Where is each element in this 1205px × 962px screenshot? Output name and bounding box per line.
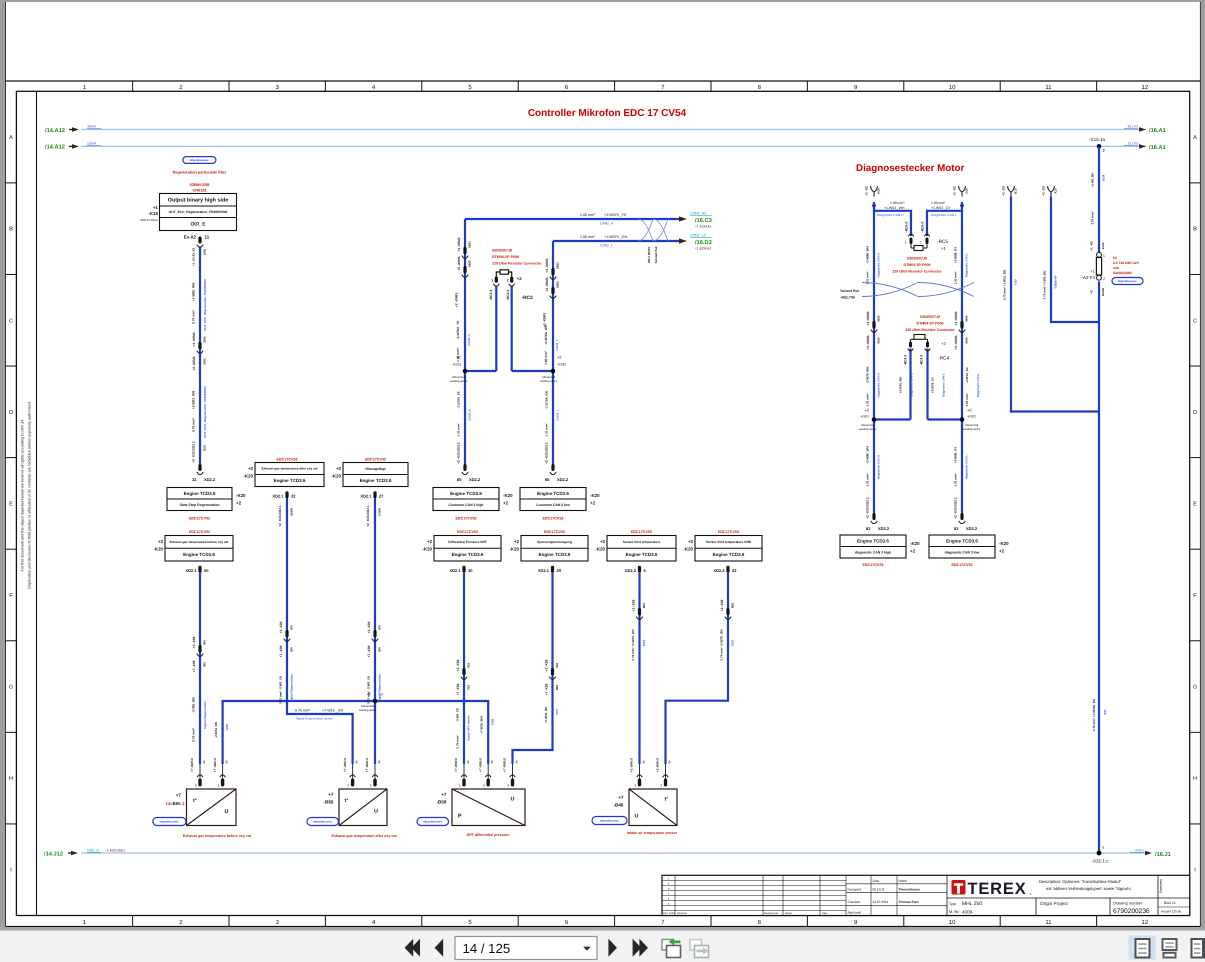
svg-text:1.00 mm²: 1.00 mm² xyxy=(457,423,461,436)
svg-text:2002: 2002 xyxy=(202,358,206,365)
svg-text:-K20: -K20 xyxy=(503,493,513,498)
svg-text:ntlpcolbw.anex.: ntlpcolbw.anex. xyxy=(190,159,210,162)
svg-text:XD2.2: XD2.2 xyxy=(204,477,216,482)
svg-text:+1-ECM:K1: +1-ECM:K1 xyxy=(695,225,712,229)
svg-text:-K18: -K18 xyxy=(148,211,158,216)
svg-text:7B3: 7B3 xyxy=(466,662,470,668)
svg-text:11: 11 xyxy=(205,235,210,240)
svg-text:-A2-F3: -A2-F3 xyxy=(1082,275,1096,280)
svg-text:EDC17CV52: EDC17CV52 xyxy=(631,530,652,534)
svg-text:/16.C3: /16.C3 xyxy=(695,217,712,224)
svg-text:Diagnostic CAN L: Diagnostic CAN L xyxy=(965,253,969,278)
svg-text:XD2.1: XD2.1 xyxy=(185,568,197,573)
svg-text:0.75 mm²: 0.75 mm² xyxy=(192,418,196,432)
svg-text:6B02: 6B02 xyxy=(467,260,471,267)
svg-text:Sensor Inlet temperature GND: Sensor Inlet temperature GND xyxy=(706,540,752,544)
svg-text:+7 -B66:X: +7 -B66:X xyxy=(365,757,369,772)
svg-text:5350H-2/58: 5350H-2/58 xyxy=(190,183,210,187)
svg-text:welding splice: welding splice xyxy=(450,379,468,383)
svg-text:Diagnostic CAN H: Diagnostic CAN H xyxy=(877,213,904,217)
svg-text:EDC17CV52: EDC17CV52 xyxy=(542,516,563,520)
svg-text:-KS01: -KS01 xyxy=(860,415,869,419)
svg-text:+2 -X0M1: +2 -X0M1 xyxy=(192,356,196,371)
svg-text:Regeneration particulate filte: Regeneration particulate filter xyxy=(173,171,227,175)
svg-text:H10: H10 xyxy=(877,188,881,194)
svg-text:85: 85 xyxy=(457,477,462,482)
svg-text:-B46: -B46 xyxy=(614,803,624,808)
svg-text:30U/4: 30U/4 xyxy=(87,125,96,129)
svg-text:Signal Regeneration: Signal Regeneration xyxy=(289,674,293,702)
svg-text:ntlpcolbw.anex.: ntlpcolbw.anex. xyxy=(160,821,180,824)
svg-text:9040: 9040 xyxy=(964,315,968,322)
svg-text:05.10.11: 05.10.11 xyxy=(873,887,885,891)
svg-text:XD2.2: XD2.2 xyxy=(625,568,637,573)
svg-text:Date: Date xyxy=(822,912,828,915)
svg-text:+2: +2 xyxy=(427,539,433,544)
svg-text:4000-: 4000- xyxy=(962,909,974,914)
svg-text:5V0: 5V0 xyxy=(555,709,559,715)
svg-text:G10: G10 xyxy=(965,188,969,194)
svg-text:+2: +2 xyxy=(941,341,946,346)
svg-text:ntlpcolbw.anex.: ntlpcolbw.anex. xyxy=(600,820,620,823)
svg-text:53035557J8: 53035557J8 xyxy=(492,249,512,253)
svg-text:2040: 2040 xyxy=(202,336,206,343)
svg-text:E: E xyxy=(1193,501,1197,507)
svg-text:ntlpcolbw.anex.: ntlpcolbw.anex. xyxy=(423,821,443,824)
svg-text:1.00 mm²: 1.00 mm² xyxy=(580,235,596,239)
svg-text:/14.J12: /14.J12 xyxy=(44,851,63,858)
svg-text:-RC3: -RC3 xyxy=(522,295,534,301)
svg-text:53000504B3: 53000504B3 xyxy=(1113,271,1132,275)
svg-text:ntlpcolbw.anex.: ntlpcolbw.anex. xyxy=(1118,280,1138,283)
svg-text:Drawing number: Drawing number xyxy=(1113,900,1143,905)
svg-text:53035557J9: 53035557J9 xyxy=(907,257,927,261)
svg-text:1: 1 xyxy=(491,279,493,283)
svg-text:1: 1 xyxy=(634,784,636,788)
svg-text:+7 -B58:X: +7 -B58:X xyxy=(454,757,458,772)
svg-text:OUT_ECU_Regeneration_FR30E006N: OUT_ECU_Regeneration_FR30E006N xyxy=(203,386,207,437)
svg-text:-2-W78A_YE: -2-W78A_YE xyxy=(456,321,460,340)
svg-text:+1-W079 _GN: +1-W079 _GN xyxy=(604,235,627,239)
svg-text:H: H xyxy=(1193,776,1197,782)
svg-text:+7: +7 xyxy=(176,793,182,798)
svg-text:+2: +2 xyxy=(1090,290,1094,294)
svg-text:Thomas Petri: Thomas Petri xyxy=(899,900,919,904)
svg-text:Diagnostic CAN H: Diagnostic CAN H xyxy=(910,373,914,397)
svg-text:-RC3.X: -RC3.X xyxy=(506,289,510,301)
svg-text:Description: Optionen: "Konstr: Description: Optionen: "Konstrukteur-Mod… xyxy=(1039,879,1122,884)
svg-text:A: A xyxy=(1193,135,1197,141)
svg-text:-RC5:X: -RC5:X xyxy=(921,221,925,233)
svg-text:Start Stop Regeneration: Start Stop Regeneration xyxy=(179,503,219,507)
svg-text:30 LV3: 30 LV3 xyxy=(1128,125,1139,129)
svg-text:diagnostic CAN L: diagnostic CAN L xyxy=(964,455,968,479)
svg-text:+7: +7 xyxy=(618,795,624,800)
svg-text:P: P xyxy=(458,814,462,820)
svg-text:+1-W079 _YE: +1-W079 _YE xyxy=(604,213,627,217)
svg-text:Diagnostic CAN L: Diagnostic CAN L xyxy=(942,373,946,397)
svg-text:14.07.2014: 14.07.2014 xyxy=(873,900,889,904)
svg-text:8B1: 8B1 xyxy=(642,602,646,608)
svg-text:diagnostic CAN 3 low: diagnostic CAN 3 low xyxy=(945,550,980,554)
svg-text:-W82:TWI: -W82:TWI xyxy=(840,296,855,300)
svg-text:0.75 mm² -2-W5_LN: 0.75 mm² -2-W5_LN xyxy=(279,676,283,704)
svg-text:+2 -X0M1: +2 -X0M1 xyxy=(455,293,459,308)
svg-text:-2.0/78A_YE: -2.0/78A_YE xyxy=(457,391,461,408)
svg-text:welding splice: welding splice xyxy=(359,708,377,712)
svg-text:+2-W86_WH: +2-W86_WH xyxy=(866,446,870,463)
svg-text:+2 -X39: +2 -X39 xyxy=(631,600,635,612)
svg-text:H: H xyxy=(9,776,13,782)
svg-text:DPF differential pressure: DPF differential pressure xyxy=(467,833,510,837)
svg-text:-K20: -K20 xyxy=(153,547,163,552)
svg-text:Twisted Pair: Twisted Pair xyxy=(654,245,658,263)
svg-text:3A02: 3A02 xyxy=(1101,242,1105,249)
svg-text:0.75 mm² +1-W018_BK: 0.75 mm² +1-W018_BK xyxy=(1092,698,1096,731)
svg-text:Signal Regeneration: Signal Regeneration xyxy=(377,674,381,702)
svg-text:+7 -X39: +7 -X39 xyxy=(544,684,548,696)
svg-text:CAN2_L: CAN2_L xyxy=(555,409,559,420)
svg-text:EDC17CV52: EDC17CV52 xyxy=(455,516,476,520)
svg-text:+7 -X39: +7 -X39 xyxy=(456,684,460,696)
svg-text:12: 12 xyxy=(1142,84,1149,91)
svg-text:GND: GND xyxy=(491,719,495,725)
svg-text:+2: +2 xyxy=(999,549,1005,554)
svg-text:6B01: 6B01 xyxy=(467,241,471,248)
svg-text:-2.0/78A_GN: -2.0/78A_GN xyxy=(545,391,549,409)
svg-text:0.75 mm² +2-W7D_GN: 0.75 mm² +2-W7D_GN xyxy=(631,629,635,660)
svg-text:2: 2 xyxy=(660,784,662,788)
svg-text:-X15:1a: -X15:1a xyxy=(1089,137,1106,142)
svg-text:120 Ohm Resistor Connector: 120 Ohm Resistor Connector xyxy=(905,328,955,332)
svg-text:6.5 T28 D95+12V: 6.5 T28 D95+12V xyxy=(1113,261,1140,265)
svg-text:diagnostic CAN 3 high: diagnostic CAN 3 high xyxy=(855,550,891,554)
svg-text:Engine TCD3.6: Engine TCD3.6 xyxy=(452,552,484,557)
svg-text:10: 10 xyxy=(949,919,956,926)
svg-text:-RC4: -RC4 xyxy=(938,356,950,362)
svg-text:GND_A: GND_A xyxy=(87,848,99,852)
svg-text:-K20: -K20 xyxy=(590,493,600,498)
svg-text:0.75 mm²: 0.75 mm² xyxy=(456,735,460,748)
svg-text:+2: +2 xyxy=(600,539,606,544)
svg-text:/16.A1: /16.A1 xyxy=(1149,144,1166,151)
svg-text:+7: +7 xyxy=(328,792,334,797)
svg-text:1.00 mm²: 1.00 mm² xyxy=(954,271,958,284)
svg-text:EDC17CV52: EDC17CV52 xyxy=(862,563,883,567)
svg-text:EDC17CV52: EDC17CV52 xyxy=(457,530,478,534)
svg-text:+1 -X2:Ex-X2: +1 -X2:Ex-X2 xyxy=(192,248,196,267)
svg-text:0.75 mm²: 0.75 mm² xyxy=(192,310,196,324)
svg-text:6B02: 6B02 xyxy=(555,281,559,288)
svg-text:+1-W5_BK: +1-W5_BK xyxy=(1091,172,1095,188)
svg-text:Ex-X2: Ex-X2 xyxy=(184,235,197,240)
svg-text:1.00 mm²: 1.00 mm² xyxy=(866,393,870,406)
svg-text:1.00 mm²: 1.00 mm² xyxy=(931,201,946,205)
svg-text:EDC17CV52: EDC17CV52 xyxy=(189,516,210,520)
svg-text:+2: +2 xyxy=(456,355,461,360)
svg-text:t°: t° xyxy=(345,798,349,804)
svg-text:9030: 9030 xyxy=(876,315,880,322)
svg-text:Diagnostic CAN H: Diagnostic CAN H xyxy=(877,253,881,278)
svg-text:Engine TCD3.6: Engine TCD3.6 xyxy=(713,552,745,557)
svg-text:+2: +2 xyxy=(503,501,509,506)
svg-text:Intake air temperature sensor: Intake air temperature sensor xyxy=(627,831,678,835)
svg-text:+2-W86_GY: +2-W86_GY xyxy=(954,447,958,464)
svg-text:B: B xyxy=(9,227,13,233)
svg-text:+2 -X0M1: +2 -X0M1 xyxy=(866,335,870,350)
svg-text:22: 22 xyxy=(732,568,737,573)
svg-text:-K20: -K20 xyxy=(243,474,253,479)
svg-text:+2 -K20:XD2.2: +2 -K20:XD2.2 xyxy=(545,442,549,464)
svg-text:+7 -X39: +7 -X39 xyxy=(279,646,283,658)
svg-text:2F0: 2F0 xyxy=(377,647,381,652)
svg-text:XD2.2: XD2.2 xyxy=(469,477,481,482)
svg-text:/16.J1: /16.J1 xyxy=(1155,851,1171,858)
svg-text:2: 2 xyxy=(195,784,197,788)
svg-text:Diagnostic CAN L: Diagnostic CAN L xyxy=(976,373,980,398)
svg-text:5A: 5A xyxy=(1113,256,1118,260)
svg-text:+2: +2 xyxy=(557,355,562,360)
svg-text:6B02: 6B02 xyxy=(555,262,559,269)
svg-text:Customer CAN 2 high: Customer CAN 2 high xyxy=(448,503,483,507)
svg-text:For this document and the obje: For this document and the object depicte… xyxy=(21,419,25,572)
svg-text:Approved: Approved xyxy=(848,910,862,914)
svg-text:WTS: WTS xyxy=(642,640,646,646)
svg-text:+2: +2 xyxy=(967,408,972,413)
svg-text:XD2.2: XD2.2 xyxy=(557,477,569,482)
svg-text:1: 1 xyxy=(218,784,220,788)
svg-text:+2 -X0M1: +2 -X0M1 xyxy=(457,256,461,271)
svg-text:+2: +2 xyxy=(336,466,342,471)
svg-text:Type: Type xyxy=(949,902,956,906)
svg-text:T28/B+RF: T28/B+RF xyxy=(1054,275,1058,289)
svg-text:Engine TCD3.6: Engine TCD3.6 xyxy=(946,538,978,543)
svg-text:+2 -K20:XD2.2: +2 -K20:XD2.2 xyxy=(192,441,196,463)
svg-text:Exhaust gas temperature after: Exhaust gas temperature after oxy cat xyxy=(331,834,397,838)
svg-text:+2 -X39: +2 -X39 xyxy=(456,660,460,672)
svg-text:2: 2 xyxy=(507,279,509,283)
svg-text:32: 32 xyxy=(291,493,296,498)
svg-text:XD2.1: XD2.1 xyxy=(360,493,372,498)
svg-text:Blatt 15: Blatt 15 xyxy=(1164,901,1176,905)
svg-text:CAN2_H: CAN2_H xyxy=(600,222,614,226)
svg-text:9040: 9040 xyxy=(964,337,968,344)
svg-text:+2: +2 xyxy=(864,408,869,413)
svg-text:Signal Regeneration: Signal Regeneration xyxy=(203,701,207,729)
svg-text:+2 -B46:X: +2 -B46:X xyxy=(630,757,634,772)
svg-text:Designed: Designed xyxy=(848,887,862,891)
svg-text:Spannungsversorgung: Spannungsversorgung xyxy=(537,540,572,544)
svg-text:EDC17CV52: EDC17CV52 xyxy=(544,530,565,534)
svg-text:1.00 mm²: 1.00 mm² xyxy=(890,201,905,205)
svg-text:Duplication and disclosure to: Duplication and disclosure to third part… xyxy=(28,401,32,589)
svg-text:+1 -X0M1: +1 -X0M1 xyxy=(954,311,958,326)
svg-text:+2 -X39: +2 -X39 xyxy=(279,622,283,634)
svg-text:MHL 250: MHL 250 xyxy=(962,901,982,907)
svg-text:+1 -X2: +1 -X2 xyxy=(865,186,869,196)
svg-text:-2-W78A_GN: -2-W78A_GN xyxy=(544,325,548,345)
svg-text:B10: B10 xyxy=(1014,188,1018,194)
svg-text:+2: +2 xyxy=(248,466,254,471)
svg-text:15U/4: 15U/4 xyxy=(87,141,96,145)
svg-text:+2 -B46:X: +2 -B46:X xyxy=(656,757,660,772)
svg-text:7B3: 7B3 xyxy=(466,684,470,690)
svg-text:U: U xyxy=(374,809,378,815)
svg-text:ntlpcolbw.anex.: ntlpcolbw.anex. xyxy=(313,821,333,824)
svg-text:DTM04-2P-P006: DTM04-2P-P006 xyxy=(904,263,931,267)
svg-text:XD2.1: XD2.1 xyxy=(449,568,461,573)
svg-text:Rev. Index: Rev. Index xyxy=(663,912,676,915)
svg-text:+1: +1 xyxy=(1090,269,1095,274)
svg-text:Diagnosestecker Motor: Diagnosestecker Motor xyxy=(856,163,965,174)
svg-text:+2: +2 xyxy=(590,501,596,506)
svg-text:DTM04-2P-P006: DTM04-2P-P006 xyxy=(917,322,944,326)
svg-text:Engine TCD3.6: Engine TCD3.6 xyxy=(537,491,569,496)
svg-text:1.00 mm²: 1.00 mm² xyxy=(544,351,548,365)
svg-text:Engine TCD3.6: Engine TCD3.6 xyxy=(360,478,392,483)
svg-text:+7 -B65:X: +7 -B65:X xyxy=(190,757,194,772)
svg-text:3F0: 3F0 xyxy=(202,640,206,645)
svg-text:Signal Regeneration sensor: Signal Regeneration sensor xyxy=(296,717,333,721)
svg-text:10: 10 xyxy=(949,84,956,91)
svg-text:+7-W16_WH: +7-W16_WH xyxy=(480,716,484,733)
svg-text:0.75 mm² +2-W7D_BN: 0.75 mm² +2-W7D_BN xyxy=(720,630,724,661)
svg-text:XD2.2: XD2.2 xyxy=(713,568,725,573)
svg-text:-X0: -X0 xyxy=(378,693,383,697)
svg-text:+1-K20:GND1: +1-K20:GND1 xyxy=(105,848,125,852)
svg-text:6790200236: 6790200236 xyxy=(1113,908,1150,915)
svg-text:86: 86 xyxy=(545,477,550,482)
svg-text:0.75 mm² +1-W2_BU: 0.75 mm² +1-W2_BU xyxy=(1043,271,1047,300)
svg-text:welding splice: welding splice xyxy=(540,379,558,383)
svg-text:Hinzugefügt: Hinzugefügt xyxy=(365,467,386,471)
svg-text:27: 27 xyxy=(379,493,384,498)
svg-text:2: 2 xyxy=(1103,277,1105,281)
svg-text:-B58: -B58 xyxy=(437,800,447,805)
svg-text:+7-W15 _GN: +7-W15 _GN xyxy=(322,709,343,713)
svg-text:C: C xyxy=(9,318,13,324)
svg-text:+2: +2 xyxy=(514,539,520,544)
svg-text:Date: Date xyxy=(873,879,880,883)
svg-text:AW 2 MUSV: AW 2 MUSV xyxy=(647,247,651,264)
svg-text:12: 12 xyxy=(1142,919,1149,926)
svg-text:+1-W88_GY: +1-W88_GY xyxy=(954,247,958,264)
svg-text:30: 30 xyxy=(468,568,473,573)
svg-text:-2-W78_WH: -2-W78_WH xyxy=(866,367,870,384)
svg-text:A10: A10 xyxy=(1054,188,1058,194)
svg-text:Engine TCD3.6: Engine TCD3.6 xyxy=(626,552,658,557)
svg-text:CAN2_L: CAN2_L xyxy=(555,339,559,350)
svg-text:11: 11 xyxy=(1045,84,1052,91)
svg-text:+1-ECM:K1: +1-ECM:K1 xyxy=(695,247,712,251)
svg-text:8B2: 8B2 xyxy=(555,684,559,690)
svg-text:Checked: Checked xyxy=(848,900,861,904)
svg-text:Origin Project: Origin Project xyxy=(1040,901,1069,906)
svg-text:D: D xyxy=(1193,410,1197,416)
svg-text:DTM04-2P-P006: DTM04-2P-P006 xyxy=(492,255,519,259)
svg-text:+1-W96_WH: +1-W96_WH xyxy=(192,282,196,301)
svg-text:Engine TCD3.6: Engine TCD3.6 xyxy=(450,491,482,496)
svg-text:0.75 mm² +1-W31_BU: 0.75 mm² +1-W31_BU xyxy=(1003,270,1007,300)
svg-text:E: E xyxy=(9,501,13,507)
svg-text:F: F xyxy=(9,593,13,599)
svg-text:EDC17CV52: EDC17CV52 xyxy=(189,530,210,534)
svg-text:Controller Mikrofon EDC 17 CV5: Controller Mikrofon EDC 17 CV54 xyxy=(528,108,687,119)
svg-text:1: 1 xyxy=(1103,254,1105,258)
svg-text:Customer CAN 2 low: Customer CAN 2 low xyxy=(536,503,570,507)
svg-text:-RC4.X: -RC4.X xyxy=(904,354,908,366)
svg-text:+1 -A2: +1 -A2 xyxy=(1090,241,1094,251)
svg-text:+1 -X3: +1 -X3 xyxy=(1002,186,1006,196)
svg-text:+7 -B66:X: +7 -B66:X xyxy=(343,757,347,772)
svg-text:120 Ohm Resistor Connector: 120 Ohm Resistor Connector xyxy=(892,270,942,274)
svg-text:-RC4.X: -RC4.X xyxy=(920,354,924,366)
svg-text:Name: Name xyxy=(899,879,908,883)
svg-text:+2-W78_GY: +2-W78_GY xyxy=(931,377,935,393)
svg-text:8B2: 8B2 xyxy=(730,602,734,608)
svg-text:-RC5: -RC5 xyxy=(937,239,949,245)
svg-text:TEREX: TEREX xyxy=(968,880,1027,898)
svg-text:XD2.2: XD2.2 xyxy=(878,526,890,531)
svg-text:+2-W78_WH: +2-W78_WH xyxy=(899,377,903,394)
svg-text:-KS30: -KS30 xyxy=(557,363,566,367)
svg-text:U: U xyxy=(635,814,639,820)
svg-text:+2 -X39: +2 -X39 xyxy=(720,600,724,612)
svg-text:+1 -X0M1: +1 -X0M1 xyxy=(866,311,870,326)
svg-text:OUT_ECU_Regeneration_FR30E006N: OUT_ECU_Regeneration_FR30E006N xyxy=(169,210,228,214)
svg-text:+2-W03_WH: +2-W03_WH xyxy=(192,390,196,409)
svg-text:F: F xyxy=(1193,593,1197,599)
svg-text:Revision No.: Revision No. xyxy=(764,912,779,915)
svg-text:1.00 mm²: 1.00 mm² xyxy=(965,393,969,406)
svg-text:GND: GND xyxy=(731,640,735,646)
svg-text:+1-W53 _WH: +1-W53 _WH xyxy=(884,206,905,210)
svg-text:0.75 mm²: 0.75 mm² xyxy=(192,728,196,742)
svg-text:CAN2_L2: CAN2_L2 xyxy=(690,234,706,238)
svg-text:-K20: -K20 xyxy=(999,541,1009,546)
svg-text:+1 -X0M1: +1 -X0M1 xyxy=(545,258,549,273)
svg-text:53035557J9: 53035557J9 xyxy=(920,315,940,319)
svg-text:3: 3 xyxy=(507,784,509,788)
svg-text:2: 2 xyxy=(348,784,350,788)
svg-text:-KS29: -KS29 xyxy=(452,363,461,367)
svg-text:Sensor Inlet temperature: Sensor Inlet temperature xyxy=(623,540,661,544)
svg-text:XD2.1: XD2.1 xyxy=(538,568,550,573)
svg-text:+2 -X0M1: +2 -X0M1 xyxy=(545,277,549,292)
svg-text:M.-Nr.:: M.-Nr.: xyxy=(949,910,960,914)
svg-text:27/W8: 27/W8 xyxy=(378,508,382,517)
svg-text:3F0: 3F0 xyxy=(202,662,206,667)
svg-text:G: G xyxy=(9,685,13,691)
svg-text:1985: 1985 xyxy=(203,248,207,255)
svg-text:1: 1 xyxy=(905,241,907,245)
svg-text:+7 -B65:X: +7 -B65:X xyxy=(213,757,217,772)
svg-text:1: 1 xyxy=(370,784,372,788)
svg-text:11: 11 xyxy=(1045,919,1052,926)
svg-text:G: G xyxy=(1193,685,1197,691)
svg-text:+7-W16_BK: +7-W16_BK xyxy=(544,706,548,723)
svg-text:0.75 mm²: 0.75 mm² xyxy=(295,709,311,713)
svg-text:30A06: 30A06 xyxy=(1101,287,1105,296)
svg-text:/16.A1: /16.A1 xyxy=(1149,127,1166,134)
svg-text:Diagnostic CAN L: Diagnostic CAN L xyxy=(931,213,957,217)
svg-text:-2-W14_BN: -2-W14_BN xyxy=(214,722,218,738)
svg-text:+1: +1 xyxy=(941,246,946,251)
svg-text:diagnostic CAN H: diagnostic CAN H xyxy=(876,455,880,479)
svg-text:welding splice: welding splice xyxy=(963,427,981,431)
svg-text:83: 83 xyxy=(954,526,959,531)
svg-text:2.50 mm²: 2.50 mm² xyxy=(1091,211,1095,224)
